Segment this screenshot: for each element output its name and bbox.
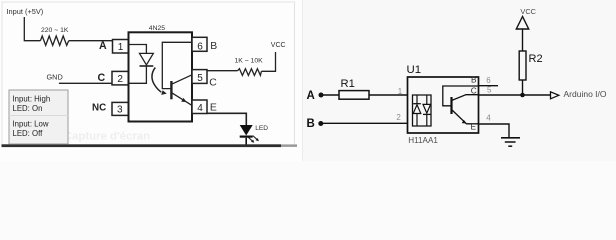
pin 6 stub wire [479, 85, 499, 87]
wire resistor to VCC [261, 52, 275, 71]
light coupling arrow [152, 68, 167, 95]
node A terminal [307, 90, 324, 102]
pin number 1 [398, 87, 403, 96]
GND net label [47, 72, 63, 81]
output arrow to Arduino [551, 92, 559, 99]
phototransistor of U1 [443, 86, 479, 124]
svg-text:Input: High: Input: High [13, 95, 51, 104]
pin label A [99, 40, 107, 52]
svg-text:2: 2 [396, 113, 401, 122]
resistor R2 [519, 51, 526, 80]
svg-text:H11AA1: H11AA1 [408, 136, 438, 145]
svg-text:B: B [210, 41, 217, 52]
pin 6 box [192, 37, 207, 52]
pin number 6 [486, 76, 491, 85]
svg-text:E: E [471, 123, 477, 132]
svg-text:LED: On: LED: On [13, 104, 43, 113]
value label 1K ~ 10K [235, 58, 264, 65]
svg-text:Arduino I/O: Arduino I/O [564, 89, 607, 99]
svg-text:6: 6 [486, 76, 491, 85]
svg-text:4N25: 4N25 [149, 25, 165, 32]
pin 4 box [192, 100, 207, 114]
LED label [255, 125, 268, 132]
svg-text:U1: U1 [407, 64, 422, 76]
optocoupler U1 body [408, 77, 479, 133]
svg-text:GND: GND [47, 72, 63, 81]
label R2 [529, 53, 543, 65]
pin number 5 [487, 86, 492, 95]
VCC net label [271, 42, 286, 49]
wire input to resistor [24, 17, 40, 41]
pin letter B [471, 76, 477, 85]
svg-text:1: 1 [118, 42, 124, 53]
junction node [520, 93, 525, 98]
svg-text:Input (+5V): Input (+5V) [7, 7, 44, 16]
svg-text:2: 2 [117, 74, 123, 85]
svg-text:220 ~ 1K: 220 ~ 1K [41, 27, 69, 34]
pin number 4 [486, 114, 491, 123]
svg-text:LED: Off: LED: Off [13, 129, 44, 138]
resistor 1K~10K [238, 69, 262, 76]
node B terminal [307, 118, 324, 130]
pin label NC [92, 102, 106, 113]
ground symbol [501, 138, 520, 146]
wire pin 5 to output [479, 94, 551, 96]
svg-text:1: 1 [398, 87, 403, 96]
wire R2 to VCC [522, 29, 524, 51]
wire junction to R2 [522, 80, 524, 95]
LED output diode [240, 125, 253, 145]
VCC power symbol [516, 7, 536, 29]
svg-text:R2: R2 [529, 53, 543, 65]
svg-text:Input: Low: Input: Low [13, 120, 49, 129]
svg-text:Capture d'écran: Capture d'écran [64, 130, 150, 142]
svg-text:B: B [471, 76, 477, 85]
pin 2 box [112, 71, 129, 85]
label R1 [341, 78, 355, 90]
pin 3 box [112, 102, 129, 115]
wire pin 4 to LED [207, 113, 246, 125]
pin 5 box [192, 70, 207, 84]
value label 220 ~ 1K [41, 27, 69, 34]
resistor R1 [339, 91, 369, 100]
wire pin 5 to pullup resistor [207, 70, 238, 72]
internal anti-parallel diodes of U1 [413, 95, 432, 126]
svg-text:3: 3 [117, 105, 123, 116]
svg-text:5: 5 [487, 86, 492, 95]
pin letter C [471, 86, 477, 95]
label H11AA1 [408, 136, 438, 145]
svg-text:VCC: VCC [271, 42, 286, 49]
resistor 220~1K [40, 36, 68, 45]
wire B to U1 pin 2 [322, 122, 413, 124]
svg-text:4: 4 [486, 114, 491, 123]
svg-text:C: C [209, 77, 217, 88]
pin number 2 [396, 113, 401, 122]
annotation note box [9, 90, 68, 144]
phototransistor of 4N25 [162, 42, 192, 105]
pin label C (collector) [209, 77, 217, 88]
svg-text:1K ~ 10K: 1K ~ 10K [235, 58, 264, 65]
svg-text:VCC: VCC [520, 7, 536, 16]
pin 1 box [113, 40, 129, 54]
optocoupler 4N25 body [129, 25, 193, 122]
node Input (+5V) label [7, 7, 44, 16]
svg-text:C: C [98, 72, 106, 84]
svg-text:A: A [99, 40, 107, 52]
pin letter E [471, 123, 477, 132]
LED emission arrows [248, 136, 259, 143]
svg-text:LED: LED [255, 125, 268, 132]
svg-text:A: A [307, 90, 315, 102]
internal LED diode of 4N25 [129, 45, 154, 84]
wire resistor to pin 1 [69, 40, 113, 42]
svg-text:6: 6 [197, 41, 203, 52]
label U1 [407, 64, 422, 76]
svg-text:5: 5 [197, 73, 203, 84]
pin label E [210, 103, 217, 114]
wire GND to pin 2 [59, 82, 112, 84]
ground rail [2, 144, 298, 147]
svg-text:R1: R1 [341, 78, 355, 90]
pin label C [98, 72, 106, 84]
wire pin 4 to ground [479, 124, 510, 138]
svg-text:B: B [307, 118, 315, 130]
svg-text:C: C [471, 86, 477, 95]
svg-text:E: E [210, 103, 217, 114]
wire R1 to U1 pin 1 [369, 94, 408, 96]
svg-text:NC: NC [92, 102, 106, 113]
wire A to R1 [322, 94, 339, 96]
node label Arduino I/O [564, 89, 607, 99]
pin label B [210, 41, 217, 52]
svg-text:4: 4 [197, 103, 203, 114]
